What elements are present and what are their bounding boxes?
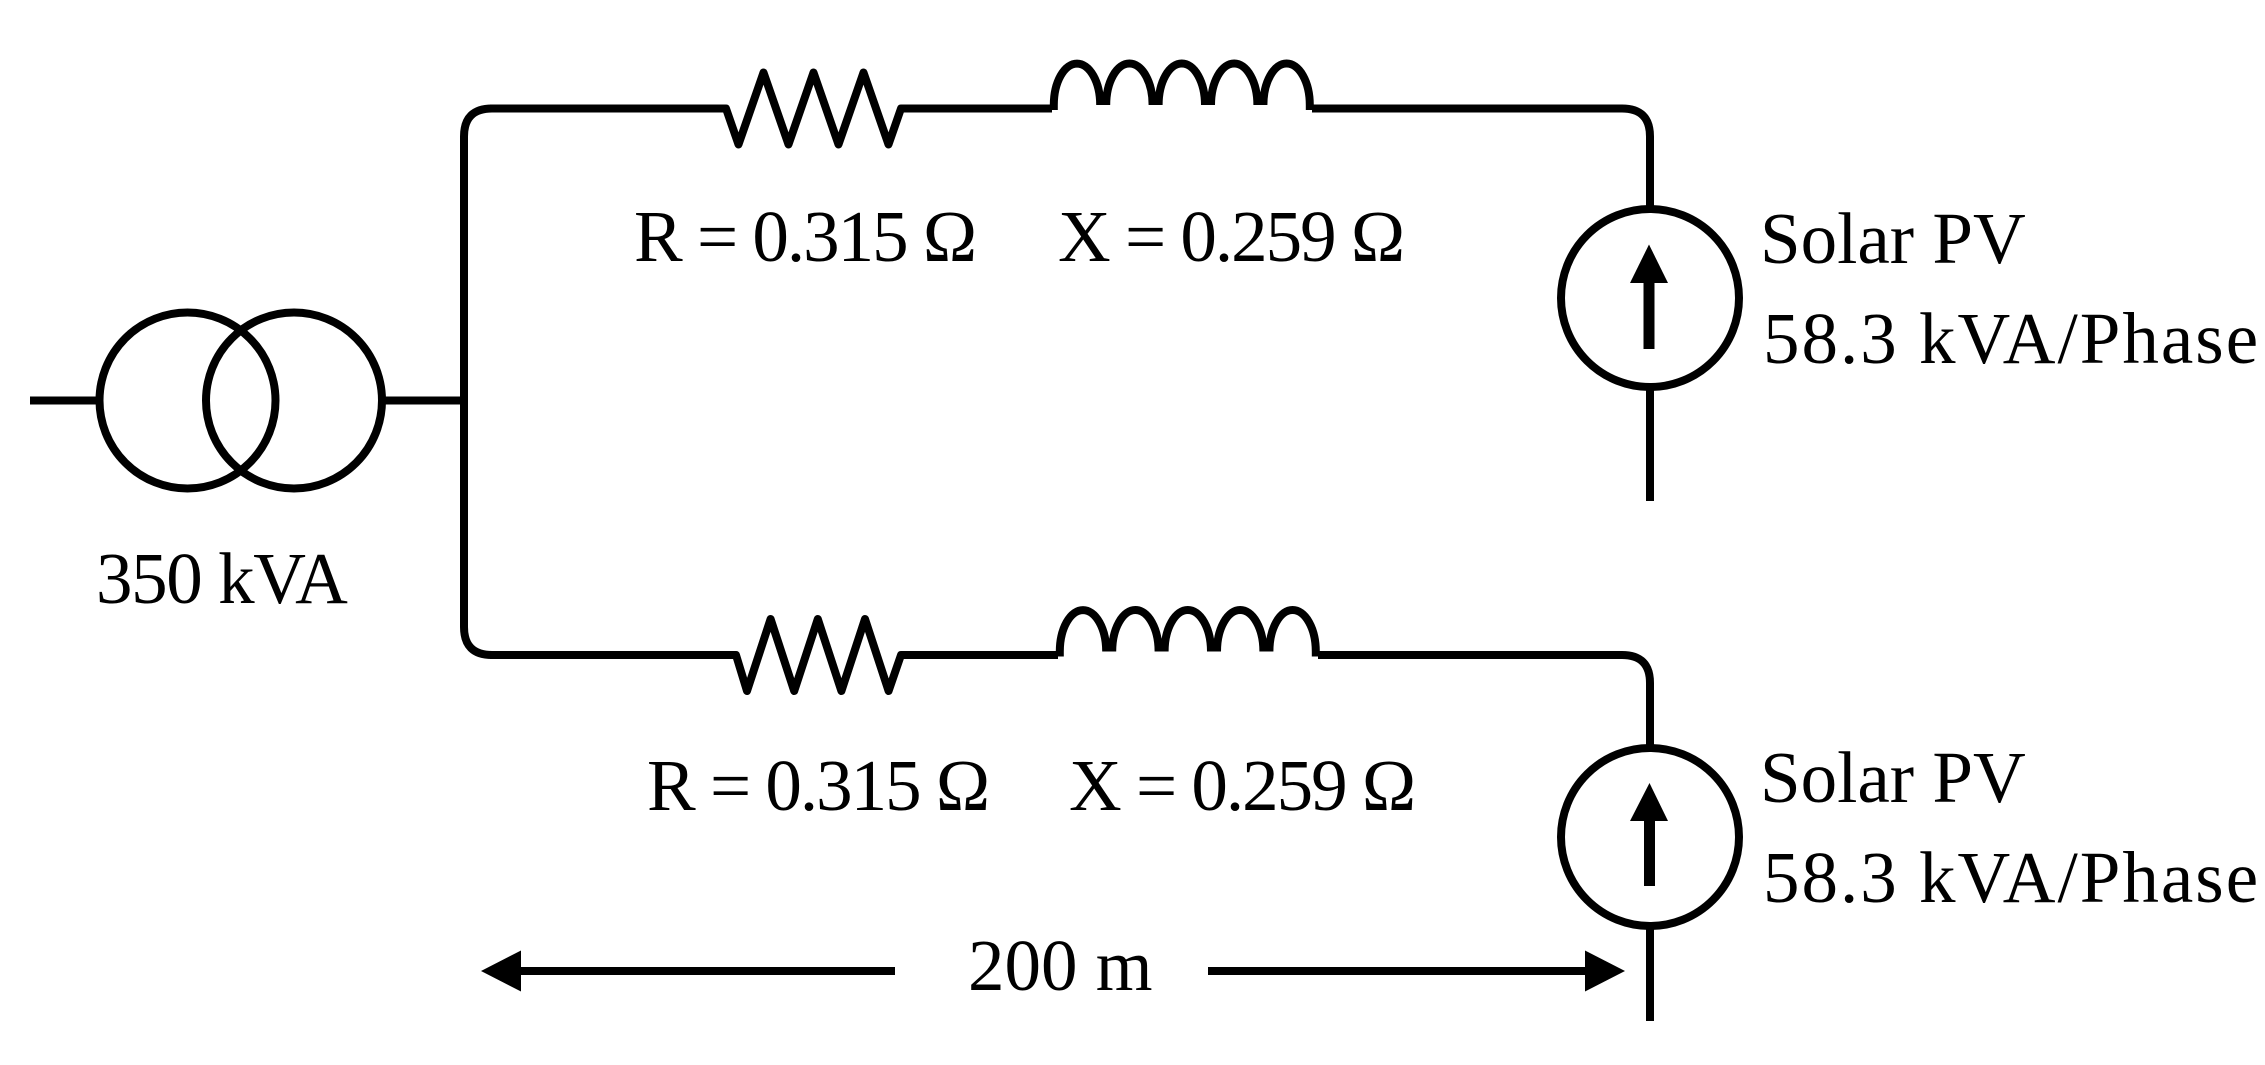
dimension arrowhead left (481, 951, 521, 992)
wire: stub below PV2 (1646, 925, 1654, 1022)
svg-text:Solar PV: Solar PV (1760, 737, 2026, 818)
svg-text:58.3 kVA/Phase: 58.3 kVA/Phase (1763, 837, 2260, 918)
svg-text:350 kVA: 350 kVA (96, 538, 348, 619)
dimension arrowhead right (1585, 951, 1625, 992)
svg-text:R = 0.315 Ω: R = 0.315 Ω (634, 196, 975, 277)
wire: transformer to bus (381, 397, 466, 405)
current source U2 arrow shaft (1644, 818, 1655, 886)
svg-text:X = 0.259 Ω: X = 0.259 Ω (1069, 745, 1414, 826)
transformer T1 primary winding circle (100, 313, 276, 489)
svg-text:R = 0.315 Ω: R = 0.315 Ω (647, 745, 988, 826)
current source U1 (Solar PV top) circle (1561, 209, 1739, 387)
current source U1 arrowhead (1630, 245, 1668, 284)
transformer T1 secondary winding circle (206, 313, 382, 489)
dimension line left segment (515, 967, 895, 975)
wire: top feeder to PV1 with corner (490, 63, 1650, 211)
svg-text:Solar PV: Solar PV (1760, 198, 2026, 279)
dimension line right segment (1208, 967, 1591, 975)
current source U1 arrow shaft (1644, 280, 1655, 349)
svg-text:200 m: 200 m (968, 925, 1153, 1006)
current source U2 arrowhead (1630, 783, 1668, 821)
svg-text:X = 0.259 Ω: X = 0.259 Ω (1058, 196, 1403, 277)
wire: bottom feeder to PV2 with corner (490, 610, 1650, 750)
wire: stub below PV1 (1646, 386, 1654, 502)
wire: source lead into transformer (30, 397, 101, 405)
current source U2 (Solar PV bottom) circle (1561, 748, 1739, 926)
wire: vertical bus with rounded corners (464, 109, 492, 656)
svg-text:58.3 kVA/Phase: 58.3 kVA/Phase (1763, 298, 2260, 379)
